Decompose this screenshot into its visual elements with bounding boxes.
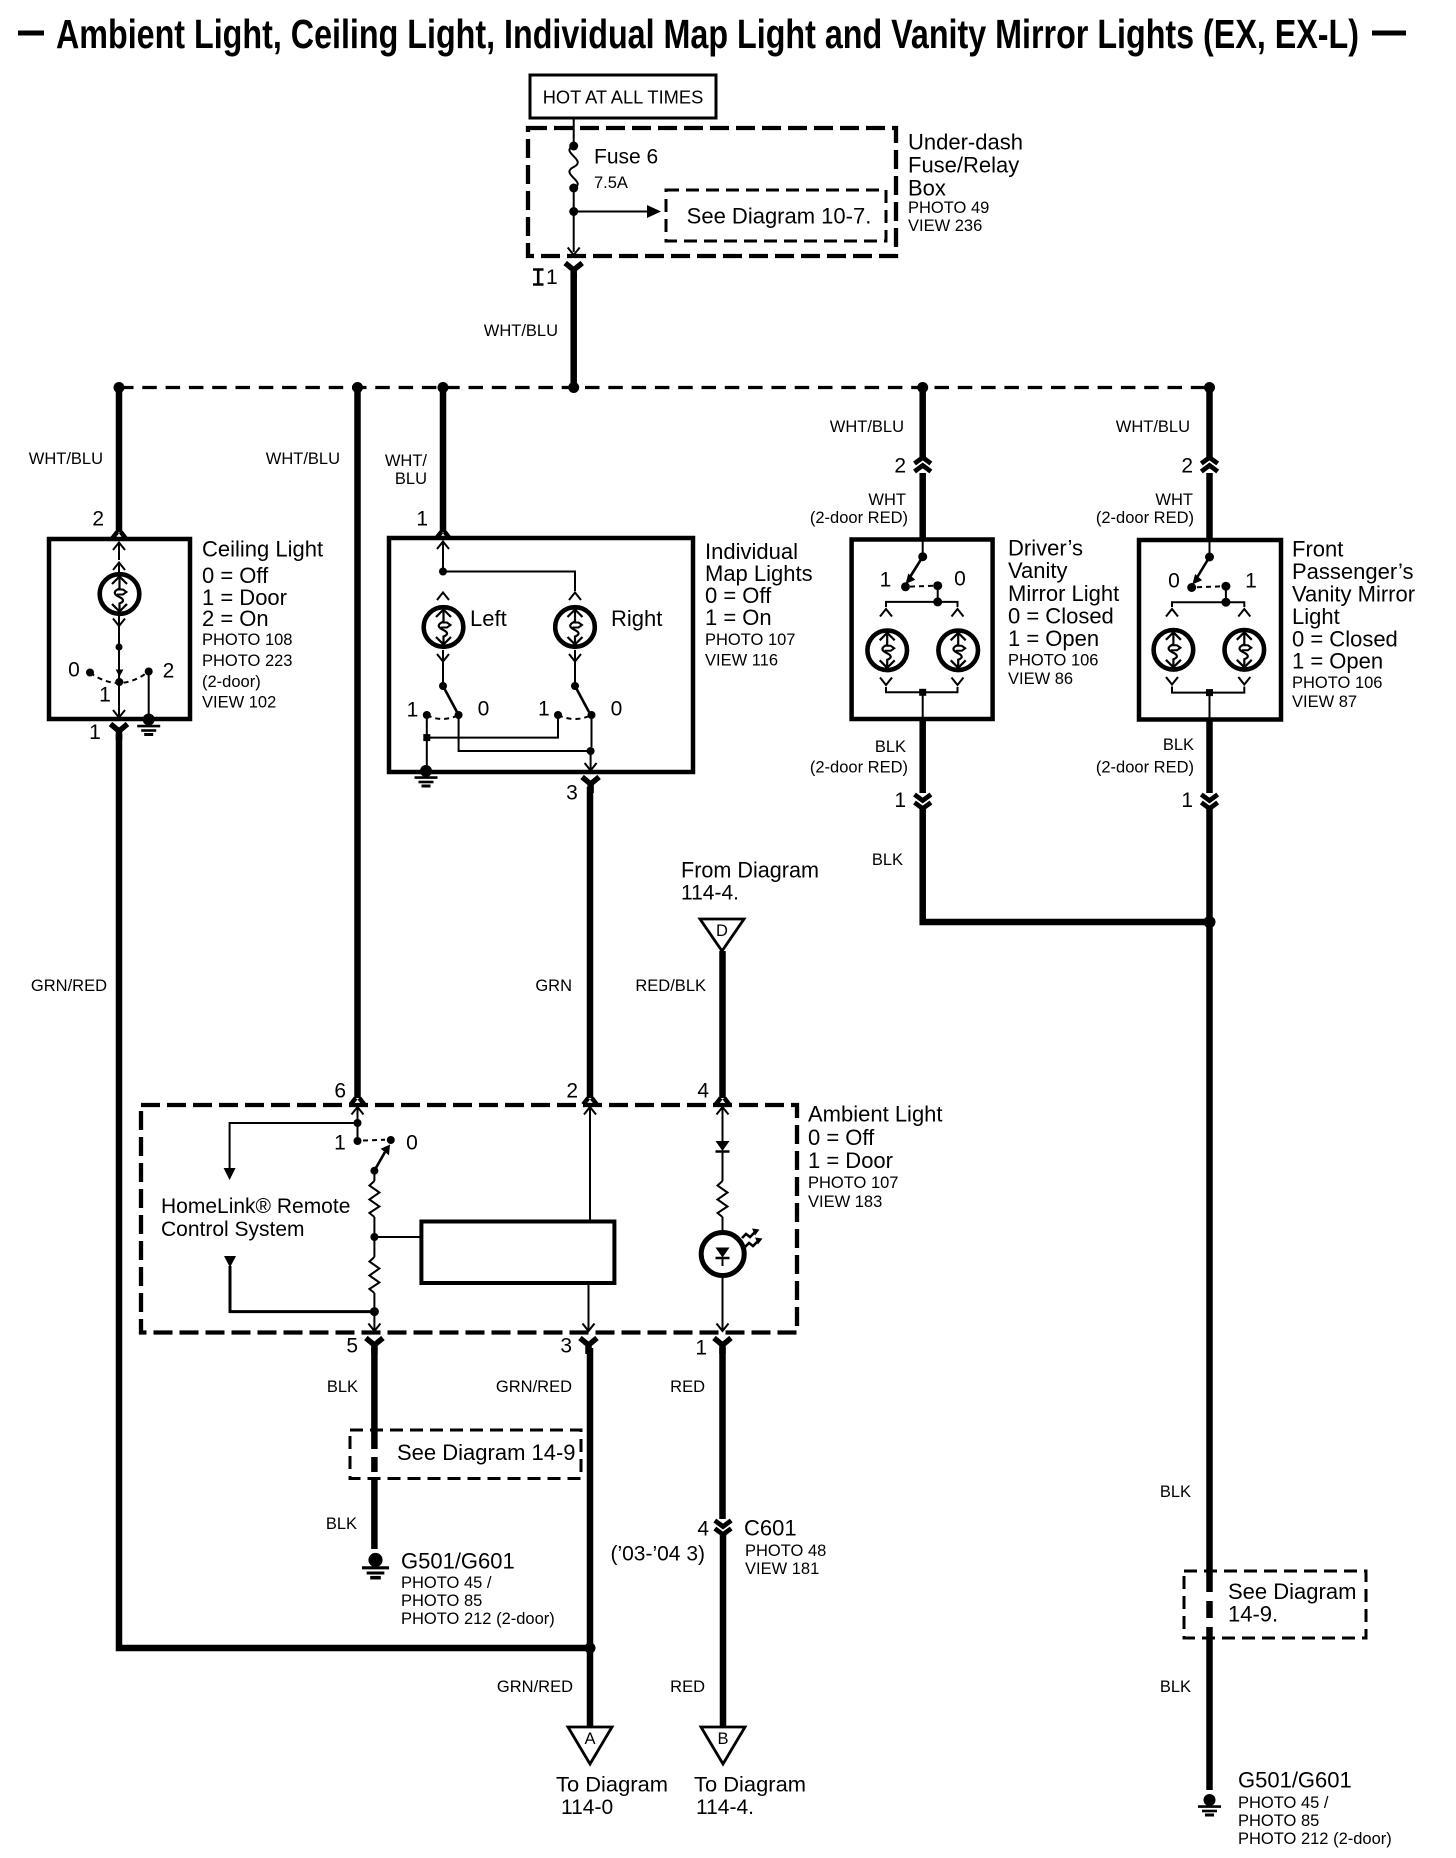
node pin5 branch — [370, 1307, 379, 1316]
svg-text:WHT/BLU: WHT/BLU — [830, 418, 904, 436]
svg-text:WHT/: WHT/ — [385, 452, 428, 470]
svg-text:2: 2 — [1181, 455, 1193, 478]
svg-text:114-0: 114-0 — [561, 1796, 613, 1819]
HomeLink label — [161, 1195, 350, 1241]
connector cup ambient pin 5 — [366, 1338, 383, 1354]
node on ceiling switch wire — [116, 644, 123, 651]
ceiling lamp bottom chevron — [113, 619, 125, 627]
svg-text:(2-door): (2-door) — [202, 673, 261, 691]
RED wire C601 to connector B — [720, 1535, 727, 1727]
passenger ground wire down — [1206, 808, 1213, 1575]
RED wire pin1 to C601 — [719, 1348, 726, 1519]
right switch position 0 — [588, 711, 596, 719]
G501/G601 label (right) — [1238, 1768, 1392, 1849]
connector I1 — [533, 263, 582, 289]
svg-text:VIEW 86: VIEW 86 — [1008, 670, 1073, 688]
svg-text:(2-door RED): (2-door RED) — [810, 509, 908, 527]
wire pos1 to lamp rail — [1225, 586, 1227, 602]
svg-text:(2-door RED): (2-door RED) — [1096, 509, 1194, 527]
ground G501/G601 (left) — [362, 1553, 389, 1578]
svg-text:PHOTO 49: PHOTO 49 — [908, 199, 989, 217]
svg-text:1: 1 — [334, 1132, 346, 1155]
svg-text:GRN/RED: GRN/RED — [497, 1678, 573, 1696]
wire through see box (dashed) — [1206, 1575, 1213, 1638]
wire node to control unit — [374, 1236, 421, 1238]
wire into bulb — [118, 563, 120, 573]
driver left lamp top chevron — [880, 609, 892, 617]
connector A triangle — [568, 1727, 612, 1764]
Under-dash Fuse/Relay Box (dashed) — [528, 128, 896, 256]
svg-text:To Diagram: To Diagram — [694, 1774, 806, 1797]
svg-text:WHT: WHT — [1155, 491, 1193, 509]
arrow down at fuse box edge — [568, 248, 580, 256]
connector skirt at ceiling pin 2 — [112, 532, 126, 539]
wire from HOT box into fuse box — [573, 118, 575, 146]
connector B triangle — [701, 1727, 745, 1764]
svg-text:Right: Right — [611, 606, 662, 631]
wire below fuse — [573, 188, 575, 252]
svg-text:Fuse 6: Fuse 6 — [594, 146, 658, 169]
wire switch to pin 1 — [118, 681, 120, 717]
connector skirt ambient pin 4 — [716, 1098, 730, 1105]
map pin 1 arrow — [437, 542, 449, 572]
svg-text:Vanity: Vanity — [1008, 558, 1068, 583]
wire to map pin 3 — [590, 751, 592, 770]
svg-text:See Diagram 10-7.: See Diagram 10-7. — [687, 204, 872, 229]
connector skirt ambient pin 2 — [583, 1098, 597, 1105]
svg-text:14-9.: 14-9. — [1228, 1602, 1278, 1627]
svg-text:PHOTO 48: PHOTO 48 — [745, 1542, 826, 1560]
ceiling pin 2 arrow — [113, 543, 125, 561]
homelink pin 6 arrow — [352, 1107, 364, 1140]
left switch pivot — [439, 682, 447, 690]
wire bulb to switch — [118, 616, 120, 679]
ceiling ground — [137, 714, 160, 735]
svg-text:VIEW 181: VIEW 181 — [745, 1560, 819, 1578]
svg-text:1: 1 — [1245, 570, 1257, 593]
resistor (ambient LED) — [718, 1181, 728, 1217]
svg-text:Front: Front — [1292, 537, 1343, 562]
driver left bulb — [867, 631, 907, 671]
wire to right ground — [1206, 1638, 1213, 1790]
See Diagram 14-9 box (left) — [350, 1430, 581, 1479]
wire bus to homelink pin 6 — [354, 388, 361, 1099]
svg-text:Mirror Light: Mirror Light — [1008, 581, 1119, 606]
node R1-R2 — [370, 1217, 378, 1257]
right switch pivot — [571, 682, 579, 690]
svg-text:C601: C601 — [744, 1516, 797, 1541]
svg-text:D: D — [716, 922, 728, 940]
svg-text:Passenger’s: Passenger’s — [1292, 559, 1413, 584]
wire bus to driver vanity — [919, 388, 926, 459]
svg-text:(2-door RED): (2-door RED) — [810, 759, 908, 777]
svg-text:(2-door RED): (2-door RED) — [1096, 759, 1194, 777]
driver switch labels — [880, 568, 966, 592]
svg-text:HOT AT ALL TIMES: HOT AT ALL TIMES — [543, 87, 704, 108]
homelink switch position 0 — [387, 1136, 395, 1144]
svg-text:Driver’s: Driver’s — [1008, 536, 1083, 561]
pin 1 arrow (ambient) — [717, 1324, 729, 1332]
svg-text:1: 1 — [89, 721, 101, 744]
homelink switch labels — [334, 1132, 418, 1155]
driver switch position 1 — [901, 582, 910, 591]
node map output — [587, 747, 595, 755]
svg-text:0: 0 — [478, 698, 490, 721]
node passenger rail — [1221, 598, 1230, 607]
wire diode to resistor — [722, 1152, 724, 1182]
node GRN/RED junction — [585, 1643, 596, 1654]
svg-text:2 = On: 2 = On — [202, 606, 269, 631]
left switch position 1 — [423, 711, 431, 719]
svg-text:6: 6 — [334, 1080, 346, 1103]
svg-text:RED/BLK: RED/BLK — [635, 977, 706, 995]
wire ceiling pin1 down and right to junction — [119, 734, 590, 1648]
connector 1 (driver) — [894, 789, 931, 812]
ceiling switch position 0 — [86, 669, 94, 677]
left switch labels — [407, 698, 490, 722]
ceiling switch labels — [68, 659, 174, 707]
svg-text:0: 0 — [68, 659, 80, 682]
Under-dash Fuse/Relay Box label — [908, 130, 1023, 236]
svg-text:WHT/BLU: WHT/BLU — [29, 450, 103, 468]
connector skirt at map pin 1 — [436, 532, 450, 539]
driver vanity box — [852, 540, 993, 720]
svg-text:1: 1 — [416, 508, 428, 531]
diode (ambient) — [716, 1141, 730, 1152]
wire label WHT (driver) — [810, 491, 908, 527]
connector D triangle — [700, 919, 744, 951]
driver output wire — [919, 719, 926, 793]
Ambient Light / HomeLink box (dashed) — [141, 1105, 797, 1333]
wire resistor to LED — [722, 1217, 724, 1234]
left lamp bottom chevron — [437, 654, 449, 662]
resistor R1 (homelink) — [369, 1171, 379, 1217]
svg-text:See Diagram 14-9: See Diagram 14-9 — [397, 1440, 576, 1465]
wire right pos0 to output — [591, 715, 593, 747]
svg-text:7.5A: 7.5A — [594, 174, 628, 192]
passenger switch pivot — [1205, 553, 1214, 562]
passenger switch position 0 — [1187, 583, 1196, 592]
svg-text:1: 1 — [99, 684, 111, 707]
passenger switch labels — [1168, 570, 1257, 593]
wire through box dashed — [371, 1434, 378, 1478]
svg-text:0: 0 — [954, 568, 966, 591]
node map feed split — [439, 568, 447, 576]
wire label BLK (passenger) — [1096, 736, 1194, 777]
passenger switch dashed link — [1197, 585, 1221, 588]
pin 3 arrow — [583, 1324, 595, 1332]
svg-text:0: 0 — [611, 698, 623, 721]
svg-text:114-4.: 114-4. — [681, 882, 739, 905]
left lamp top chevron — [437, 593, 449, 601]
wire right bulb to switch — [574, 650, 576, 686]
driver right lamp top chevron — [952, 609, 964, 617]
tie wire to right switch pos1 — [427, 715, 558, 738]
svg-text:PHOTO 107: PHOTO 107 — [705, 631, 795, 649]
connector 2 (passenger) — [1181, 455, 1217, 478]
wire into driver box — [919, 473, 926, 541]
svg-text:1: 1 — [894, 789, 906, 812]
arrow to See Diagram 10-7 — [574, 205, 661, 218]
svg-text:2: 2 — [894, 455, 906, 478]
node BLK junction — [1204, 916, 1216, 928]
connector cup at map pin 3 — [582, 777, 599, 793]
square junction (driver output) — [919, 689, 926, 696]
BLK wire pin5 to ground — [371, 1348, 378, 1434]
svg-text:B: B — [717, 1730, 728, 1748]
ceiling internal ground wire — [148, 672, 150, 715]
node bus-homelink — [352, 382, 363, 393]
individual map lights label — [705, 539, 813, 670]
arrowhead onto switch pivot — [116, 670, 124, 677]
svg-text:From Diagram: From Diagram — [681, 858, 819, 883]
driver switch blade — [906, 557, 923, 584]
passenger left lamp bottom chevron — [1166, 677, 1178, 685]
svg-text:0: 0 — [1168, 570, 1180, 593]
svg-text:0: 0 — [406, 1132, 418, 1155]
svg-text:1 = On: 1 = On — [705, 605, 772, 630]
connector 1 (passenger) — [1181, 789, 1217, 812]
To Diagram 114-4 label — [694, 1774, 806, 1820]
svg-text:BLK: BLK — [1160, 1678, 1191, 1696]
svg-text:5: 5 — [346, 1335, 358, 1358]
svg-text:PHOTO 85: PHOTO 85 — [401, 1592, 482, 1610]
node bus-ceiling — [114, 382, 125, 393]
left switch position 0 — [455, 711, 463, 719]
connector cup ambient pin 1 — [714, 1338, 731, 1354]
homelink switch blade — [374, 1145, 390, 1171]
svg-text:BLU: BLU — [395, 470, 427, 488]
svg-text:PHOTO 223: PHOTO 223 — [202, 652, 292, 670]
right switch blade — [575, 686, 589, 712]
wire left pos1 down to ground tie — [426, 715, 428, 768]
driver left lamp bottom chevron — [880, 678, 892, 686]
right switch labels — [538, 698, 622, 721]
svg-text:VIEW 116: VIEW 116 — [705, 652, 778, 670]
homelink switch position 1 — [354, 1137, 362, 1145]
driver lamp bottom rail — [886, 687, 958, 692]
To Diagram 114-0 label — [556, 1774, 668, 1820]
wire to passenger pin 1 — [1209, 693, 1211, 720]
GRN/RED wire pin3 to junction — [587, 1348, 594, 1648]
wire to driver pin 1 — [922, 692, 924, 719]
svg-text:HomeLink® Remote: HomeLink® Remote — [161, 1195, 350, 1218]
resistor R2 (homelink) — [369, 1257, 379, 1293]
svg-text:PHOTO 85: PHOTO 85 — [1238, 1812, 1319, 1830]
homelink switch dashed link — [363, 1139, 385, 1142]
svg-text:1: 1 — [1181, 789, 1193, 812]
passenger lamp top rail — [1172, 602, 1244, 607]
svg-text:GRN: GRN — [535, 977, 572, 995]
passenger switch feed — [1209, 542, 1211, 557]
right switch dashed arc — [558, 715, 592, 719]
svg-text:1 = Door: 1 = Door — [808, 1148, 893, 1173]
svg-text:VIEW 102: VIEW 102 — [202, 694, 276, 712]
svg-text:PHOTO 107: PHOTO 107 — [808, 1174, 898, 1192]
passenger left bulb — [1154, 630, 1194, 670]
ceiling switch position 2 — [145, 668, 153, 676]
homelink blade pivot — [370, 1167, 378, 1175]
wire into passenger box — [1206, 473, 1213, 542]
svg-text:114-4.: 114-4. — [696, 1796, 754, 1819]
connector 2 (driver) — [894, 455, 931, 478]
svg-text:Left: Left — [470, 606, 507, 631]
svg-text:G501/G601: G501/G601 — [401, 1549, 515, 1574]
homelink control unit box — [421, 1222, 614, 1284]
ambient pin 4 arrow — [717, 1107, 729, 1141]
node bus-passenger-vanity — [1204, 382, 1215, 393]
svg-text:BLK: BLK — [1163, 736, 1194, 754]
passenger switch blade — [1192, 557, 1209, 585]
svg-text:WHT: WHT — [868, 491, 906, 509]
svg-text:4: 4 — [697, 1518, 709, 1541]
HOT AT ALL TIMES box — [530, 75, 716, 118]
Ambient Light label — [808, 1102, 943, 1212]
svg-text:Control System: Control System — [161, 1218, 305, 1241]
svg-text:PHOTO 106: PHOTO 106 — [1008, 652, 1098, 670]
right map bulb — [555, 607, 595, 647]
svg-text:Fuse/Relay: Fuse/Relay — [908, 153, 1019, 178]
svg-text:GRN/RED: GRN/RED — [31, 977, 107, 995]
svg-text:1: 1 — [546, 266, 558, 289]
right lamp bottom chevron — [569, 654, 581, 662]
wire R2 to pin 5 — [373, 1293, 375, 1330]
svg-text:2: 2 — [163, 660, 175, 683]
svg-text:To Diagram: To Diagram — [556, 1774, 668, 1797]
driver switch dashed link — [910, 585, 933, 588]
driver switch position 0 — [933, 581, 942, 590]
individual map lights box — [389, 538, 693, 772]
svg-text:1 = Open: 1 = Open — [1008, 626, 1099, 651]
driver right lamp bottom chevron — [952, 678, 964, 686]
connector cup at ceiling pin 1 — [111, 724, 128, 740]
See Diagram 14-9 box (right) — [1184, 1571, 1366, 1638]
wire map pin3 to ambient pin 2 — [587, 787, 594, 1098]
square junction (passenger output) — [1206, 689, 1213, 696]
svg-text:2: 2 — [92, 508, 104, 531]
homelink left antenna 2 — [224, 1256, 374, 1312]
See Diagram 10-7 box — [666, 190, 886, 241]
left switch dashed arc — [427, 715, 459, 719]
svg-text:2: 2 — [566, 1080, 578, 1103]
svg-text:RED: RED — [670, 1378, 705, 1396]
svg-text:Ceiling Light: Ceiling Light — [202, 537, 323, 562]
wire left pos0 to output — [459, 715, 591, 751]
bus (dashed) — [119, 386, 1210, 389]
svg-text:PHOTO 45 /: PHOTO 45 / — [1238, 1794, 1329, 1812]
svg-text:0 = Closed: 0 = Closed — [1008, 604, 1114, 629]
wire pos0 to lamp rail — [937, 586, 939, 602]
svg-text:(’03-’04 3): (’03-’04 3) — [610, 1543, 705, 1566]
passenger right bulb — [1225, 630, 1265, 670]
wire to left ground — [371, 1478, 378, 1549]
svg-text:A: A — [584, 1730, 595, 1748]
wire junction to connector A — [587, 1648, 594, 1727]
svg-text:Box: Box — [908, 176, 946, 201]
svg-text:0 = Off: 0 = Off — [808, 1125, 875, 1150]
svg-text:1: 1 — [695, 1337, 707, 1360]
From Diagram 114-4 label — [681, 858, 819, 905]
svg-text:VIEW 87: VIEW 87 — [1292, 693, 1357, 711]
svg-text:BLK: BLK — [875, 738, 906, 756]
homelink pin 5 arrow — [368, 1324, 380, 1332]
svg-text:RED: RED — [670, 1678, 705, 1696]
svg-text:4: 4 — [697, 1080, 709, 1103]
wire D to ambient pin 4 — [719, 951, 726, 1098]
node: arrow branch junction — [569, 207, 578, 216]
driver lamp top rail — [886, 602, 958, 607]
svg-text:Ambient Light, Ceiling Light,: Ambient Light, Ceiling Light, Individual… — [56, 11, 1359, 57]
svg-text:BLK: BLK — [1160, 1483, 1191, 1501]
wire bus to passenger vanity — [1206, 388, 1213, 459]
svg-text:GRN/RED: GRN/RED — [496, 1378, 572, 1396]
passenger switch position 1 — [1221, 582, 1230, 591]
svg-text:WHT/BLU: WHT/BLU — [1116, 418, 1190, 436]
left map bulb — [424, 607, 464, 647]
svg-text:BLK: BLK — [327, 1378, 358, 1396]
connector C601 — [610, 1516, 826, 1579]
node bus-maplight — [438, 382, 449, 393]
wire label BLK (driver) — [810, 738, 908, 777]
svg-text:See Diagram: See Diagram — [1228, 1579, 1356, 1604]
passenger lamp bottom rail — [1172, 687, 1244, 693]
connector cup ambient pin 3 — [580, 1338, 597, 1354]
node bus-driver-vanity — [917, 382, 928, 393]
map pin 3 arrow — [585, 763, 597, 771]
node bus-feeder — [568, 382, 579, 393]
right lamp top chevron — [569, 593, 581, 601]
ceiling lamp top chevron — [113, 563, 125, 571]
ceiling light box — [49, 539, 190, 719]
svg-text:BLK: BLK — [326, 1515, 357, 1533]
wire bus to map lights — [440, 388, 447, 533]
svg-text:3: 3 — [560, 1335, 572, 1358]
svg-text:1: 1 — [880, 569, 892, 592]
node driver rail — [933, 597, 942, 606]
svg-text:1: 1 — [407, 699, 419, 722]
right switch position 1 — [554, 711, 562, 719]
LED (ambient light) — [701, 1229, 762, 1276]
homelink left antenna 1 — [224, 1123, 358, 1180]
wire LED to pin 1 — [722, 1275, 724, 1330]
ceiling light label — [202, 537, 323, 712]
svg-text:PHOTO 212 (2-door): PHOTO 212 (2-door) — [1238, 1830, 1392, 1848]
map ground — [415, 765, 438, 786]
wire left bulb to switch — [442, 650, 444, 686]
driver vanity label — [1008, 536, 1119, 689]
G501/G601 label (left) — [401, 1549, 555, 1629]
square junction (map ground tie) — [423, 734, 430, 741]
ambient pin 2 arrow and wire to control unit — [584, 1107, 596, 1222]
node homelink feed — [354, 1119, 362, 1127]
wire driver to ground bus — [923, 808, 1210, 922]
connector skirt ambient pin 6 — [351, 1098, 365, 1105]
feeder wire to bus — [570, 273, 577, 390]
ceiling bulb — [100, 574, 140, 614]
svg-text:G501/G601: G501/G601 — [1238, 1768, 1352, 1793]
passenger right lamp bottom chevron — [1238, 677, 1250, 685]
control unit to pin 3 — [588, 1283, 590, 1330]
passenger vanity label — [1292, 537, 1415, 712]
wire bus to ceiling light — [116, 388, 123, 533]
ceiling switch dashed arc — [90, 672, 149, 684]
wire label WHT/BLU (map) — [385, 452, 428, 488]
ceiling pin 1 arrow — [113, 710, 125, 718]
svg-text:Light: Light — [1292, 604, 1340, 629]
svg-text:Under-dash: Under-dash — [908, 130, 1023, 155]
left switch blade — [443, 686, 457, 712]
ground G501/G601 (right) — [1198, 1794, 1221, 1815]
